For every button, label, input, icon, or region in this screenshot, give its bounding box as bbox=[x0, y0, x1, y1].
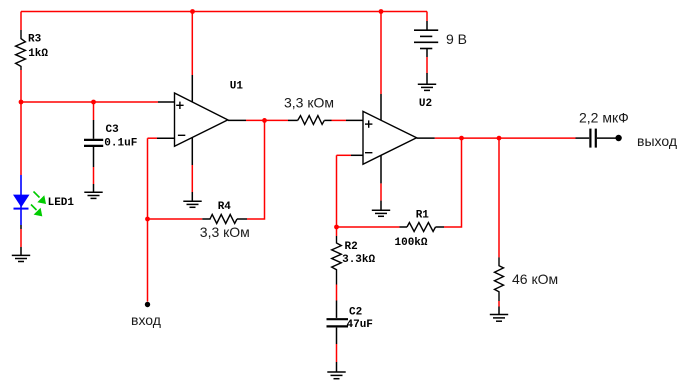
svg-text:0.1uF: 0.1uF bbox=[104, 138, 137, 150]
svg-text:U1: U1 bbox=[230, 80, 244, 92]
svg-text:9 В: 9 В bbox=[446, 31, 467, 47]
svg-text:U2: U2 bbox=[419, 98, 432, 110]
svg-text:100kΩ: 100kΩ bbox=[395, 237, 428, 249]
svg-text:C3: C3 bbox=[106, 124, 120, 136]
svg-text:1kΩ: 1kΩ bbox=[28, 48, 48, 60]
svg-text:47uF: 47uF bbox=[347, 319, 373, 331]
svg-text:LED1: LED1 bbox=[48, 197, 75, 209]
svg-text:R2: R2 bbox=[345, 241, 358, 253]
svg-text:R3: R3 bbox=[28, 34, 42, 46]
svg-text:C2: C2 bbox=[349, 307, 362, 319]
svg-text:3.3kΩ: 3.3kΩ bbox=[342, 254, 375, 266]
svg-text:46 кОм: 46 кОм bbox=[512, 271, 558, 287]
svg-text:3,3 кОм: 3,3 кОм bbox=[200, 224, 250, 240]
svg-text:R4: R4 bbox=[218, 201, 232, 213]
svg-text:выход: выход bbox=[637, 133, 677, 149]
svg-text:3,3 кОм: 3,3 кОм bbox=[284, 95, 334, 111]
svg-text:вход: вход bbox=[131, 312, 161, 328]
svg-text:2,2 мкФ: 2,2 мкФ bbox=[579, 110, 629, 126]
svg-text:R1: R1 bbox=[416, 210, 430, 222]
